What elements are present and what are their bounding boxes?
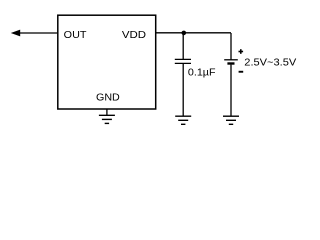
pin label VDD [122, 29, 147, 41]
pin label OUT [64, 29, 87, 41]
wire VDD to battery [156, 32, 231, 34]
arrowhead on OUT wire [11, 30, 20, 37]
wire GND pin to ground [106, 109, 108, 115]
svg-text:GND: GND [96, 92, 120, 104]
wire battery to ground [230, 65, 232, 117]
wire capacitor to ground [182, 63, 184, 116]
polarity label + [239, 49, 244, 54]
ground (capacitor) [175, 116, 191, 124]
svg-text:VDD: VDD [122, 29, 147, 41]
svg-text:OUT: OUT [64, 29, 87, 41]
wire junction to capacitor [182, 33, 184, 59]
value label 2.5V~3.5V [244, 57, 296, 69]
svg-text:2.5V~3.5V: 2.5V~3.5V [244, 57, 296, 69]
junction node dot [182, 31, 187, 36]
ground (battery) [223, 116, 239, 124]
polarity label - [239, 71, 244, 73]
value label 0.1uF [188, 67, 216, 79]
IC box U1 [58, 15, 156, 109]
svg-text:0.1µF: 0.1µF [188, 67, 216, 79]
battery BT1 [224, 60, 238, 64]
wire OUT output [19, 32, 57, 34]
capacitor C1 [175, 59, 191, 63]
pin label GND [96, 92, 120, 104]
wire battery positive [230, 33, 232, 60]
ground (GND pin) [99, 115, 115, 123]
